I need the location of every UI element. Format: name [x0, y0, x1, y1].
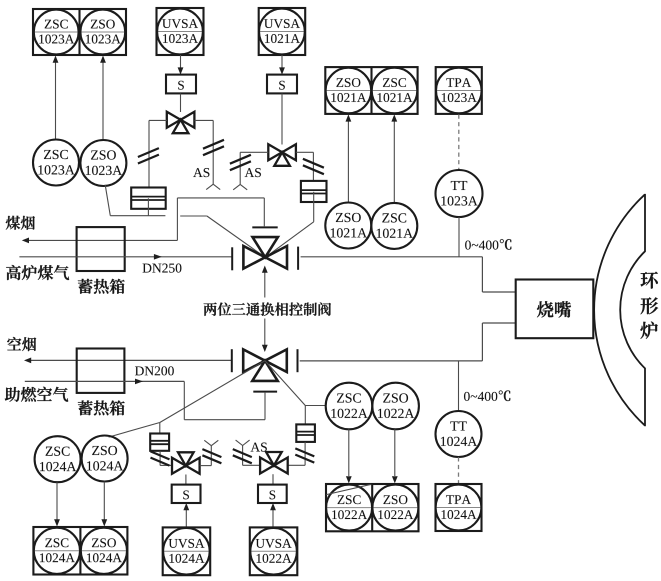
signal line ZSC1021A circle to square — [391, 114, 397, 203]
valve B bottom port cap — [253, 391, 277, 393]
label DN250 — [143, 264, 182, 273]
label 0~400C top — [465, 239, 511, 250]
heat storage box 2 — [77, 349, 125, 393]
label DN200 — [135, 366, 174, 375]
valve A top port cap — [252, 226, 277, 228]
pneumatic slashes on cylinder2 line — [303, 159, 324, 174]
dashed signal TT-TPA bottom — [458, 457, 460, 483]
flow arrow DN250 — [154, 254, 162, 260]
air chevron (V3) — [204, 440, 218, 445]
pneumatic slashes on cylinder3 line — [151, 451, 170, 465]
pneumatic slashes on cylinder1 line — [138, 148, 159, 163]
stray linkage over ZSC1022A square — [326, 484, 371, 494]
solenoid S3 — [172, 485, 201, 503]
V3 right port line to vent — [200, 446, 212, 466]
cylinder4 air line to pilot V4 — [289, 442, 306, 465]
temperature alarm TPA 1023A — [436, 67, 482, 114]
signal line ZSO1024A to square — [101, 482, 107, 527]
label huan — [641, 272, 658, 289]
burner box shaozui — [516, 280, 594, 339]
combustion air pipe — [25, 380, 185, 382]
indicator pair ZSO-1021A / ZSC-1021A squares — [325, 67, 417, 114]
signal line ZSC1022A to square — [346, 429, 352, 483]
linkage to ZSC1022A — [305, 405, 325, 407]
signal arrow UVSA1022A to S4 — [270, 503, 276, 527]
pipe valve A to burner — [301, 257, 516, 292]
label zhuran kongqi — [5, 387, 68, 402]
limit switch ZSO 1021A — [325, 203, 371, 249]
solenoid S4 — [258, 485, 287, 503]
air supply chevron AS (left) — [206, 184, 220, 189]
actuator cylinder 2 — [301, 181, 327, 222]
blast furnace gas pipe — [19, 256, 232, 258]
label gaolu meiqi — [6, 265, 69, 280]
solenoid driver UVSA 1022A — [250, 527, 297, 575]
air routing to valve B bottom port — [184, 381, 265, 419]
label liangwei santong huanxiang kongzhifa — [204, 302, 331, 315]
temperature transmitter TT 1023A — [436, 170, 483, 217]
actuator cylinder 4 — [296, 424, 315, 442]
actuator cylinder 1 — [131, 188, 166, 216]
label xing — [641, 297, 659, 314]
flange bar left of valve B — [231, 349, 233, 372]
limit switch ZSO 1022A — [372, 383, 419, 430]
pilot 3-way valve V3 — [172, 452, 200, 474]
TT tap line to pipe — [458, 217, 460, 257]
pipe valve B to burner — [300, 323, 516, 361]
linkage valve B to cylinder 4 — [265, 361, 305, 425]
signal arrow UVSA1024A to S3 — [183, 503, 189, 527]
solenoid driver UVSA 1024A — [163, 527, 211, 575]
flange bar right of valve B — [297, 349, 299, 372]
signal line ZSO1022A to square — [392, 429, 398, 483]
smoke outlet arrow (meiyan) — [22, 238, 178, 244]
pneumatic slashes on V4 left line — [233, 449, 252, 463]
signal line ZSC1024A to square — [54, 482, 60, 526]
air supply chevron AS (second) — [233, 184, 247, 189]
signal arrow UVSA1021A to solenoid S — [279, 55, 285, 75]
linkage ZSO1024A to valve B — [109, 361, 265, 437]
V4 left port line — [243, 446, 260, 466]
vent routing from valve A top port — [177, 198, 264, 241]
temperature alarm TPA 1024A — [436, 484, 482, 531]
signal line ZSO1021A circle to square — [346, 114, 352, 202]
dashed signal TPA-TT — [458, 115, 460, 170]
temperature transmitter TT 1024A — [436, 411, 482, 457]
limit switch ZSO 1023A — [80, 140, 126, 186]
label AS bottom — [251, 443, 267, 452]
flow arrow DN200 — [135, 379, 143, 385]
actuator cylinder 3 — [150, 434, 169, 451]
limit switch ZSO 1024A — [82, 436, 128, 482]
V1 left port line to cylinder 1 — [149, 120, 167, 187]
line V4 to solenoid S4 — [272, 474, 274, 485]
heat storage box 1 — [77, 227, 125, 271]
signal line ZSO1023A circle to square — [100, 56, 106, 141]
label AS left — [193, 168, 209, 177]
limit switch ZSC 1023A — [33, 140, 79, 186]
pilot 3-way valve V1 — [167, 112, 195, 134]
TT tap line bottom — [458, 361, 460, 411]
line V3 to solenoid S3 — [185, 475, 187, 486]
solenoid S (second) — [267, 75, 297, 94]
label meiyan — [6, 216, 35, 230]
label kongyan — [7, 337, 36, 351]
pilot 3-way valve V4 — [260, 452, 288, 474]
pneumatic slashes on V2 left line — [230, 155, 251, 170]
air chevron AS (V4) — [236, 440, 250, 445]
limit switch ZSC 1024A — [35, 436, 81, 482]
ring furnace wall — [594, 195, 645, 425]
V1 right port line to vent — [195, 120, 214, 184]
limit switch ZSC 1022A — [326, 383, 373, 430]
limit switch ZSC 1021A — [371, 203, 417, 249]
reversing valve label lines with arrows — [262, 266, 268, 298]
flange bar left of valve A — [231, 247, 233, 270]
main three-way valve B — [243, 349, 287, 381]
line S to pilot valve V2 — [281, 93, 283, 144]
label xurexiang 2 — [78, 400, 125, 415]
linkage cylinder2 to main valve A — [265, 222, 313, 257]
indicator pair ZSC-1022A / ZSO-1022A squares — [326, 484, 419, 531]
flange bar right of valve A — [297, 247, 299, 270]
label AS second — [245, 168, 261, 177]
main three-way valve A — [243, 237, 287, 269]
linkage ZSO1023A to cylinder rod — [105, 185, 165, 216]
pneumatic slashes on V3 vent line — [202, 449, 221, 463]
air smoke outlet arrow (kongyan) — [24, 358, 232, 364]
solenoid driver UVSA 1023A — [157, 8, 204, 55]
pneumatic slashes on cylinder4 line — [295, 448, 314, 462]
V2 left port line to AS — [240, 152, 268, 184]
label xurexiang 1 — [78, 279, 125, 294]
line S to pilot valve V1 — [180, 93, 182, 112]
pilot 3-way valve V2 — [268, 144, 296, 166]
solenoid driver UVSA 1021A — [259, 8, 306, 55]
indicator pair ZSC-1024A / ZSO-1024A squares — [33, 527, 127, 575]
linkage to main valve A — [180, 216, 265, 257]
label 0~400C bottom — [464, 390, 510, 401]
label shaozui — [537, 301, 571, 317]
signal line ZSC1023A circle to square — [53, 56, 59, 140]
pneumatic slashes on V1 vent line — [203, 140, 224, 155]
signal arrow UVSA1023A to solenoid S — [178, 55, 184, 75]
solenoid S (fuel side) — [166, 75, 196, 94]
label lu — [640, 322, 657, 339]
cylinder3 air line to pilot V3 — [160, 451, 172, 466]
position switch indicator pair ZSC-1023A / ZSO-1023A (shared panel squares) — [33, 9, 126, 55]
V2 right port line to cylinder 2 — [296, 152, 314, 180]
